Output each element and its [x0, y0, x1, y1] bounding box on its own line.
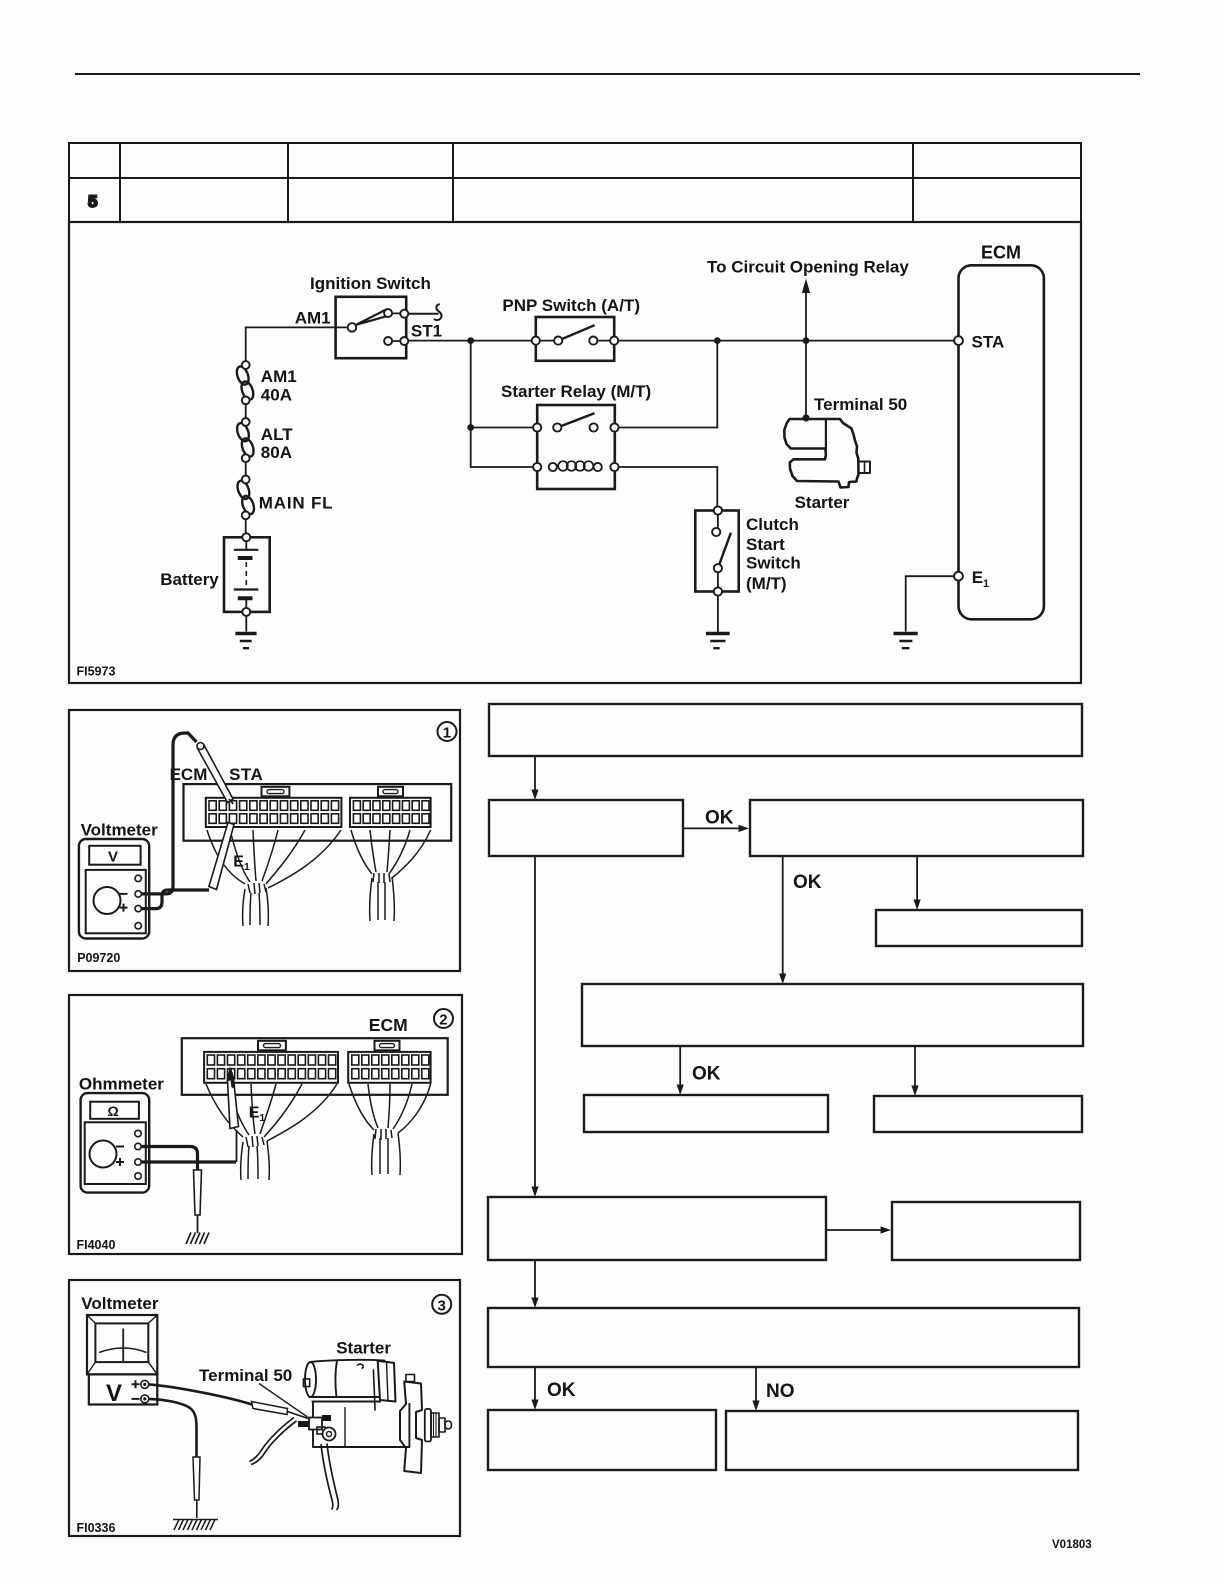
svg-text:Battery: Battery [160, 570, 219, 589]
svg-text:2: 2 [439, 1012, 447, 1029]
svg-text:80A: 80A [261, 443, 292, 462]
svg-text:ECM: ECM [369, 1015, 408, 1035]
svg-text:Start: Start [746, 535, 785, 554]
svg-text:OK: OK [547, 1380, 576, 1401]
svg-text:Clutch: Clutch [746, 515, 799, 534]
svg-text:NO: NO [766, 1381, 795, 1402]
svg-text:Voltmeter: Voltmeter [81, 1294, 159, 1313]
svg-text:OK: OK [793, 872, 822, 893]
svg-text:PNP Switch (A/T): PNP Switch (A/T) [502, 296, 640, 315]
svg-text:Switch: Switch [746, 554, 801, 573]
svg-text:1: 1 [443, 725, 451, 742]
svg-text:V: V [106, 1380, 122, 1407]
svg-text:FI0336: FI0336 [77, 1521, 116, 1535]
svg-text:E1: E1 [249, 1105, 266, 1125]
svg-text:V: V [108, 849, 118, 866]
svg-text:E1: E1 [233, 853, 250, 873]
svg-text:E1: E1 [972, 568, 989, 590]
svg-text:Ignition Switch: Ignition Switch [310, 274, 431, 293]
svg-text:To Circuit Opening Relay: To Circuit Opening Relay [707, 257, 909, 276]
svg-text:ECM: ECM [981, 242, 1021, 262]
svg-text:FI4040: FI4040 [77, 1238, 116, 1252]
svg-text:(M/T): (M/T) [746, 574, 787, 593]
svg-text:Ohmmeter: Ohmmeter [79, 1075, 164, 1094]
svg-text:Terminal 50: Terminal 50 [814, 395, 907, 414]
svg-text:Voltmeter: Voltmeter [81, 821, 159, 840]
svg-text:5: 5 [88, 192, 97, 211]
svg-text:ALT: ALT [261, 425, 293, 444]
svg-text:AM1: AM1 [261, 367, 297, 386]
svg-text:P09720: P09720 [77, 951, 120, 965]
svg-text:MAIN FL: MAIN FL [259, 493, 334, 512]
svg-text:Ω: Ω [108, 1103, 119, 1119]
svg-text:OK: OK [705, 808, 734, 829]
svg-text:ST1: ST1 [411, 321, 442, 340]
svg-text:V01803: V01803 [1052, 1539, 1092, 1551]
svg-text:FI5973: FI5973 [77, 664, 116, 678]
svg-text:OK: OK [692, 1064, 721, 1085]
svg-text:Starter: Starter [336, 1339, 391, 1358]
svg-text:Starter Relay (M/T): Starter Relay (M/T) [501, 382, 651, 401]
svg-text:40A: 40A [261, 386, 292, 405]
svg-text:STA: STA [229, 765, 263, 784]
svg-text:3: 3 [438, 1297, 446, 1314]
svg-text:STA: STA [972, 333, 1005, 352]
svg-text:Starter: Starter [795, 493, 850, 512]
svg-text:Terminal 50: Terminal 50 [199, 1366, 292, 1385]
svg-text:ECM: ECM [170, 765, 208, 784]
svg-text:AM1: AM1 [295, 308, 331, 327]
